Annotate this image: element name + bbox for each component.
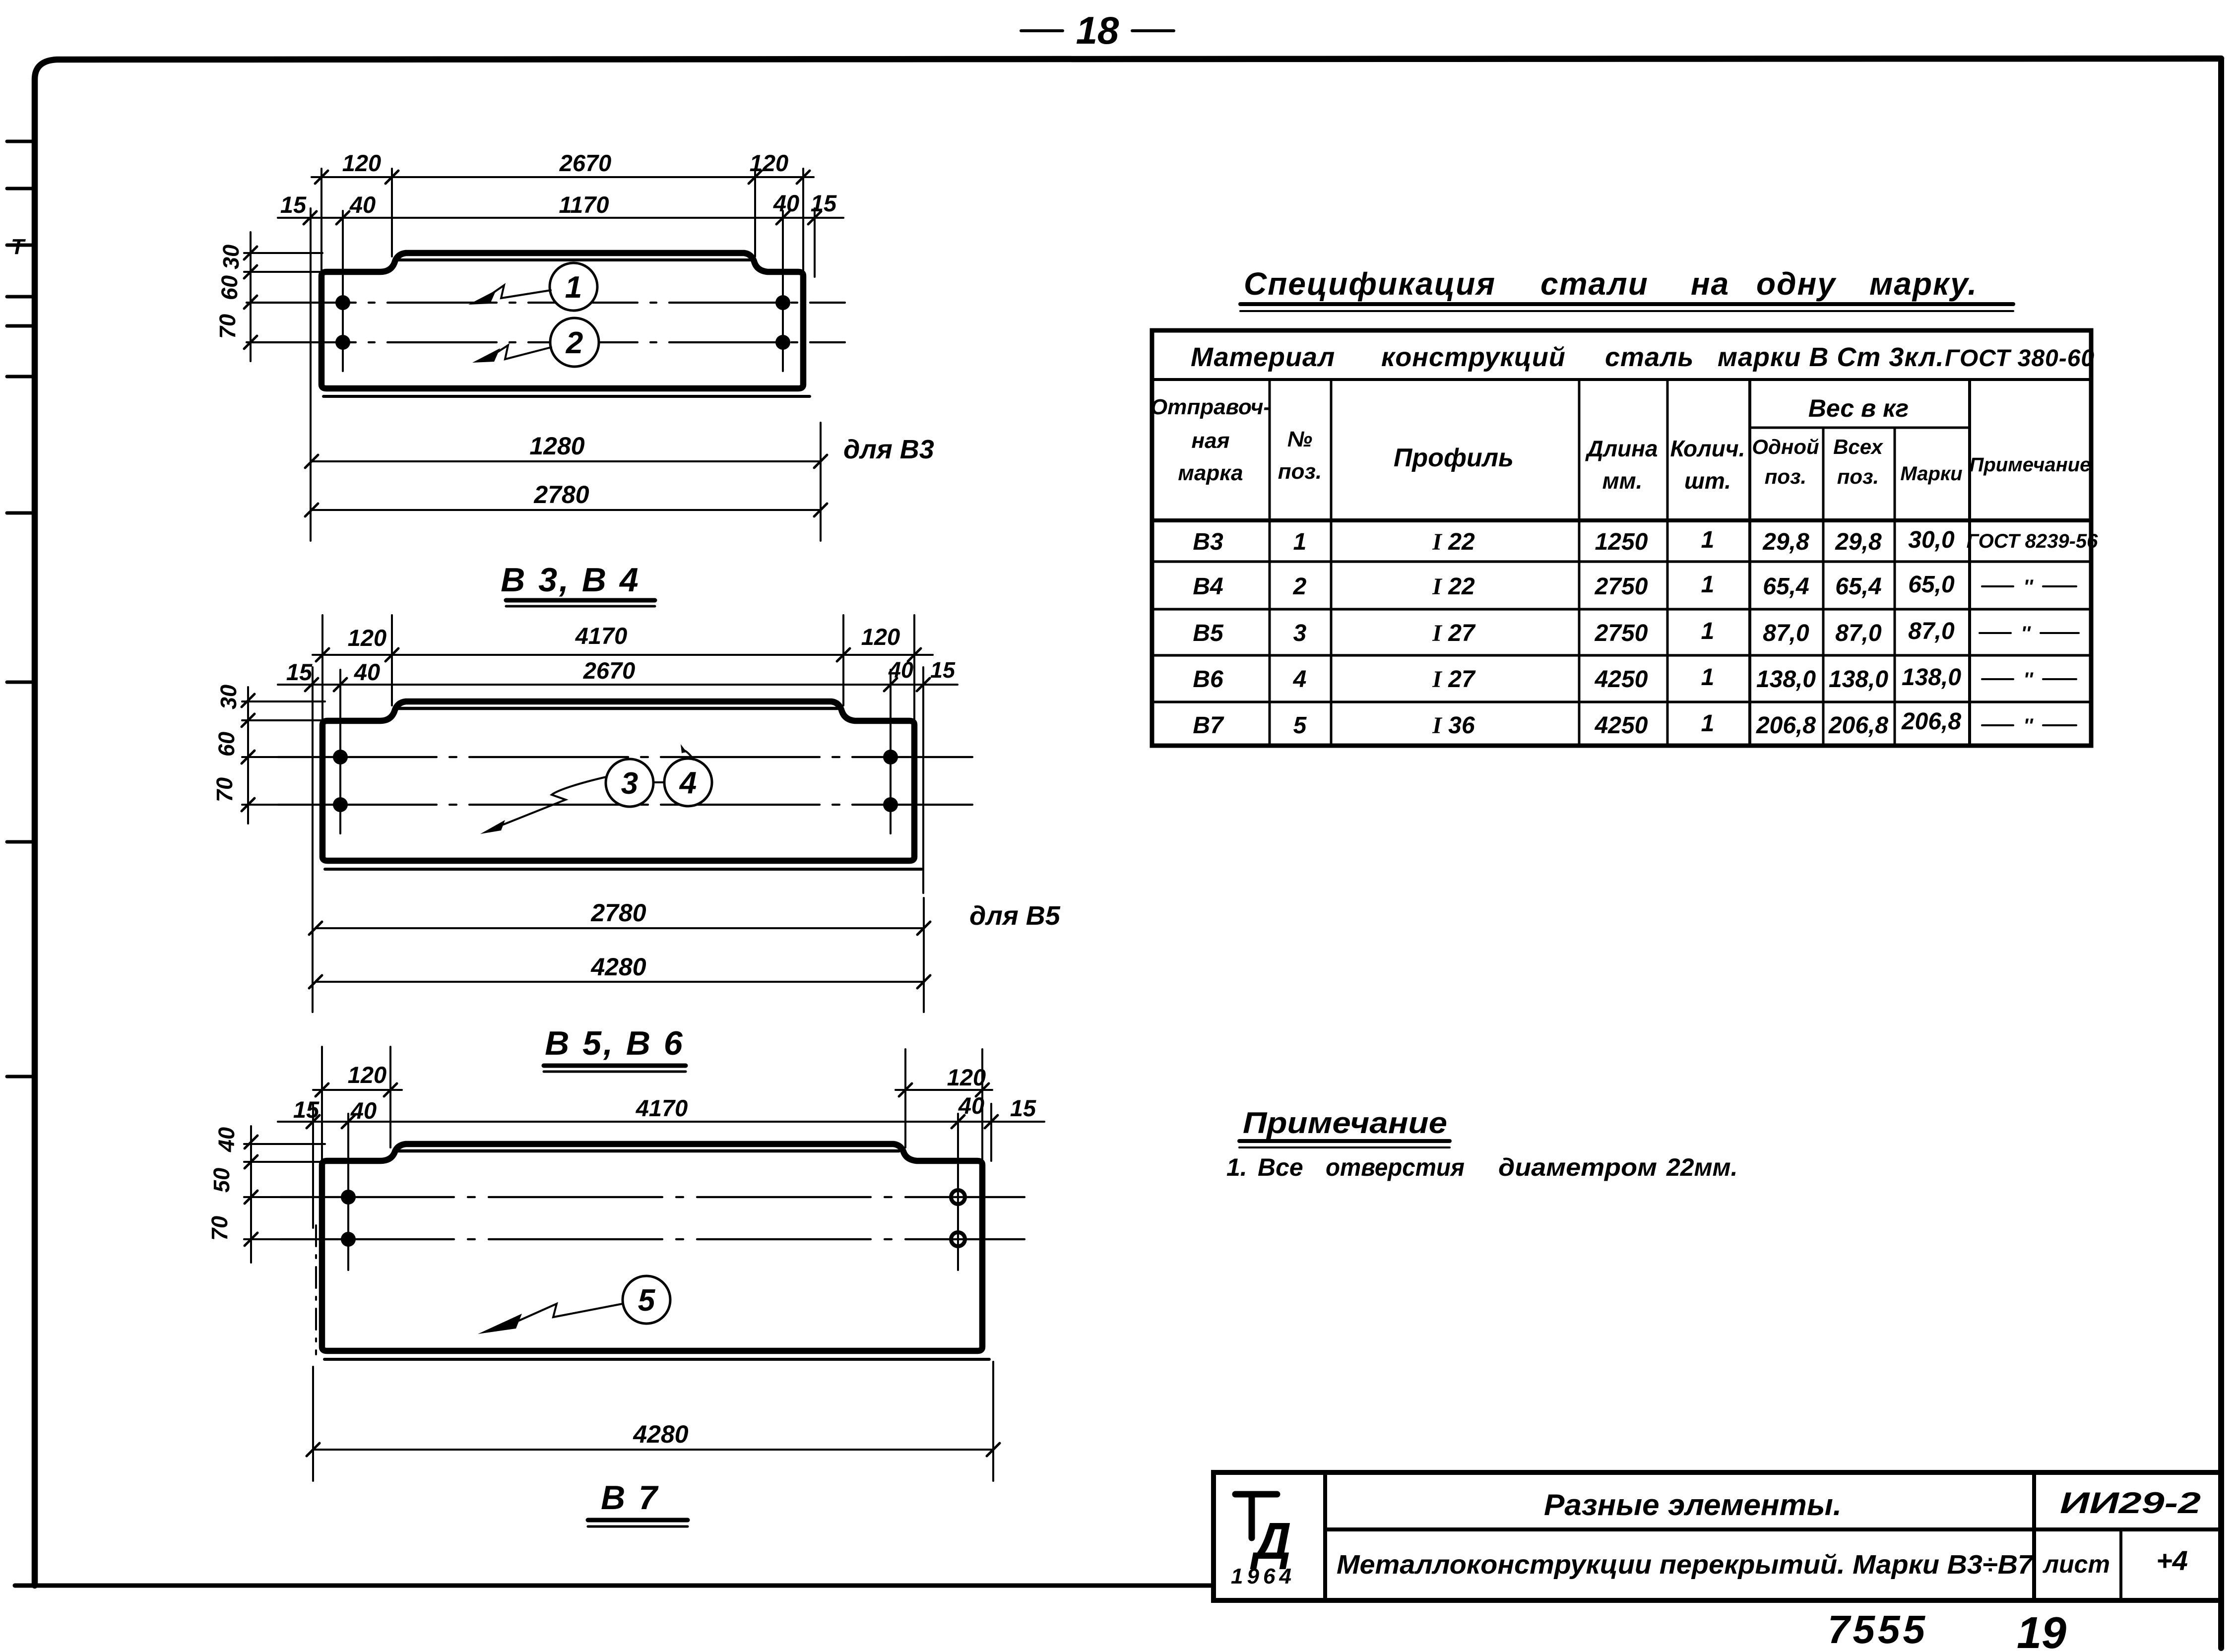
svg-text:40: 40: [958, 1092, 984, 1119]
svg-text:4250: 4250: [1595, 712, 1648, 739]
svg-text:Примечание: Примечание: [1243, 1106, 1447, 1140]
svg-text:60: 60: [217, 275, 242, 300]
svg-text:стали: стали: [1540, 266, 1649, 302]
svg-text:40: 40: [888, 657, 913, 683]
svg-text:Примечание: Примечание: [1970, 454, 2091, 476]
svg-text:В7: В7: [1193, 712, 1224, 739]
svg-text:В 3, В 4: В 3, В 4: [501, 561, 640, 599]
svg-text:мм.: мм.: [1602, 468, 1643, 494]
svg-text:2670: 2670: [559, 150, 612, 176]
svg-text:Металлоконструкции перекрытий.: Металлоконструкции перекрытий. Марки В3÷…: [1337, 1550, 2035, 1580]
svg-text:Вес в кг: Вес в кг: [1808, 394, 1909, 422]
svg-text:70: 70: [207, 1216, 232, 1241]
svg-text:конструкций: конструкций: [1381, 342, 1566, 372]
svg-text:87,0: 87,0: [1908, 618, 1955, 644]
svg-text:15: 15: [280, 191, 307, 218]
svg-text:№: №: [1287, 427, 1312, 451]
svg-text:лист: лист: [2043, 1550, 2110, 1578]
svg-text:В3: В3: [1193, 529, 1223, 555]
svg-text:120: 120: [348, 1062, 386, 1088]
svg-text:'': '': [2021, 623, 2031, 644]
svg-text:2: 2: [1293, 573, 1307, 600]
svg-text:4250: 4250: [1595, 666, 1648, 693]
svg-text:15: 15: [811, 190, 837, 216]
svg-text:I 27: I 27: [1432, 620, 1476, 646]
svg-text:5: 5: [1293, 712, 1307, 739]
svg-text:I 22: I 22: [1432, 573, 1475, 600]
svg-text:70: 70: [215, 314, 240, 339]
svg-text:29,8: 29,8: [1835, 529, 1882, 555]
svg-text:1964: 1964: [1231, 1564, 1295, 1588]
svg-text:Материал: Материал: [1191, 342, 1335, 372]
svg-text:18: 18: [1076, 8, 1119, 52]
svg-text:206,8: 206,8: [1756, 712, 1816, 739]
svg-text:марки В Ст 3кл.: марки В Ст 3кл.: [1718, 342, 1944, 372]
svg-text:марка: марка: [1178, 461, 1243, 485]
svg-text:3: 3: [621, 766, 638, 801]
svg-text:диаметром: диаметром: [1498, 1153, 1657, 1181]
svg-text:138,0: 138,0: [1902, 664, 1961, 691]
svg-text:1: 1: [1701, 664, 1715, 691]
svg-text:40: 40: [349, 191, 376, 218]
svg-text:120: 120: [947, 1064, 986, 1090]
svg-text:Колич.: Колич.: [1670, 436, 1745, 461]
svg-text:206,8: 206,8: [1828, 712, 1888, 739]
svg-text:Разные элементы.: Разные элементы.: [1544, 1488, 1842, 1522]
svg-text:отверстия: отверстия: [1326, 1153, 1465, 1181]
svg-text:4: 4: [1293, 666, 1307, 693]
svg-text:Т: Т: [11, 235, 26, 259]
svg-text:Спецификация: Спецификация: [1244, 266, 1496, 302]
svg-text:40: 40: [350, 1097, 377, 1124]
svg-text:2750: 2750: [1595, 573, 1648, 600]
svg-text:138,0: 138,0: [1829, 666, 1888, 693]
svg-text:2780: 2780: [533, 481, 589, 508]
svg-text:ная: ная: [1192, 429, 1230, 453]
svg-text:87,0: 87,0: [1835, 620, 1882, 646]
svg-text:50: 50: [209, 1168, 234, 1193]
svg-text:ГОСТ 8239-56: ГОСТ 8239-56: [1967, 530, 2099, 552]
svg-text:30: 30: [216, 685, 241, 709]
svg-text:1: 1: [1701, 527, 1715, 553]
svg-text:60: 60: [214, 732, 239, 757]
svg-text:Д: Д: [1250, 1512, 1291, 1570]
svg-text:для В3: для В3: [843, 435, 934, 464]
svg-text:4280: 4280: [590, 953, 646, 981]
svg-text:120: 120: [348, 625, 386, 651]
svg-text:120: 120: [861, 624, 900, 650]
svg-text:'': '': [2023, 715, 2034, 737]
svg-text:15: 15: [930, 657, 956, 683]
svg-text:одну: одну: [1756, 266, 1837, 302]
svg-text:сталь: сталь: [1605, 342, 1694, 372]
svg-text:2750: 2750: [1595, 620, 1648, 646]
svg-text:1: 1: [1701, 618, 1715, 644]
svg-text:2: 2: [566, 326, 583, 360]
svg-text:+4: +4: [2156, 1545, 2188, 1576]
svg-text:30: 30: [218, 245, 244, 269]
svg-text:В5: В5: [1193, 620, 1224, 646]
svg-text:4170: 4170: [575, 623, 628, 649]
svg-text:4170: 4170: [636, 1095, 688, 1121]
svg-text:70: 70: [212, 777, 237, 802]
svg-text:марку.: марку.: [1869, 266, 1978, 302]
svg-text:Всех: Всех: [1833, 435, 1883, 458]
svg-text:40: 40: [214, 1127, 239, 1152]
svg-text:поз.: поз.: [1765, 465, 1806, 488]
svg-text:2780: 2780: [590, 899, 646, 927]
svg-text:поз.: поз.: [1837, 465, 1879, 488]
svg-text:В 5, В 6: В 5, В 6: [545, 1024, 684, 1062]
svg-text:65,4: 65,4: [1835, 573, 1881, 600]
svg-text:40: 40: [354, 659, 380, 685]
svg-text:Отправоч-: Отправоч-: [1151, 395, 1271, 419]
svg-text:7555: 7555: [1828, 1607, 1928, 1652]
svg-text:Все: Все: [1258, 1153, 1303, 1181]
svg-text:15: 15: [286, 659, 313, 685]
svg-text:138,0: 138,0: [1756, 666, 1816, 693]
svg-text:Длина: Длина: [1585, 436, 1658, 461]
svg-text:29,8: 29,8: [1762, 529, 1809, 555]
svg-text:40: 40: [773, 190, 799, 216]
svg-text:65,0: 65,0: [1908, 572, 1955, 598]
svg-text:ГОСТ 380-60: ГОСТ 380-60: [1945, 345, 2095, 372]
svg-text:120: 120: [342, 150, 381, 176]
svg-text:206,8: 206,8: [1901, 708, 1961, 735]
svg-text:на: на: [1691, 266, 1729, 302]
svg-text:I 22: I 22: [1432, 529, 1475, 555]
svg-text:'': '': [2023, 576, 2034, 598]
svg-text:1.: 1.: [1226, 1153, 1247, 1181]
svg-text:5: 5: [638, 1283, 656, 1318]
svg-text:Марки: Марки: [1900, 463, 1962, 485]
svg-text:3: 3: [1293, 620, 1307, 646]
svg-text:22мм.: 22мм.: [1666, 1153, 1737, 1181]
svg-text:19: 19: [2017, 1608, 2066, 1652]
svg-text:4280: 4280: [633, 1420, 688, 1448]
svg-text:65,4: 65,4: [1763, 573, 1809, 600]
svg-text:Одной: Одной: [1752, 435, 1819, 458]
svg-text:1170: 1170: [559, 191, 609, 218]
svg-text:120: 120: [750, 150, 788, 176]
svg-text:В 7: В 7: [601, 1479, 659, 1517]
svg-text:шт.: шт.: [1684, 468, 1731, 494]
svg-text:1280: 1280: [529, 432, 584, 460]
svg-text:В4: В4: [1193, 573, 1223, 600]
svg-text:I 27: I 27: [1432, 666, 1476, 693]
svg-text:30,0: 30,0: [1908, 527, 1955, 553]
svg-text:В6: В6: [1193, 666, 1223, 693]
svg-text:1: 1: [565, 270, 582, 305]
svg-text:1250: 1250: [1595, 529, 1648, 555]
svg-text:Профиль: Профиль: [1394, 444, 1514, 472]
svg-text:1: 1: [1701, 572, 1715, 598]
svg-text:15: 15: [293, 1096, 320, 1123]
svg-text:'': '': [2023, 669, 2034, 691]
svg-text:поз.: поз.: [1278, 459, 1322, 484]
svg-text:1: 1: [1293, 529, 1307, 555]
svg-text:87,0: 87,0: [1763, 620, 1809, 646]
svg-text:ИИ29-2: ИИ29-2: [2060, 1486, 2201, 1520]
svg-text:15: 15: [1010, 1095, 1036, 1121]
svg-text:1: 1: [1701, 710, 1715, 737]
svg-text:I 36: I 36: [1432, 712, 1475, 739]
svg-text:4: 4: [679, 766, 697, 800]
svg-text:2670: 2670: [583, 657, 636, 684]
svg-text:для В5: для В5: [969, 901, 1061, 931]
